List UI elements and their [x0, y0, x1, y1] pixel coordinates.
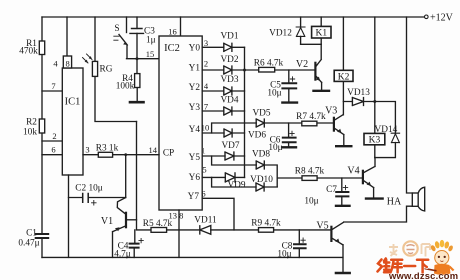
svg-text:8: 8 [179, 211, 183, 221]
svg-text:10μ: 10μ [277, 250, 291, 260]
svg-text:V3: V3 [325, 106, 337, 117]
svg-text:V4: V4 [347, 166, 359, 177]
svg-text:V1: V1 [101, 216, 113, 227]
svg-text:13: 13 [169, 211, 178, 221]
svg-text:R2: R2 [26, 118, 37, 128]
svg-text:10μ: 10μ [304, 197, 318, 207]
svg-text:Y1: Y1 [189, 64, 201, 74]
svg-text:8: 8 [65, 59, 69, 69]
svg-text:1μ: 1μ [146, 36, 156, 46]
svg-text:R7 4.7k: R7 4.7k [296, 112, 326, 122]
svg-text:4.7μ: 4.7μ [114, 250, 131, 260]
svg-text:VD12: VD12 [269, 29, 292, 39]
svg-text:Y7: Y7 [188, 192, 200, 202]
svg-text:R3 1k: R3 1k [96, 144, 119, 154]
svg-text:Y5: Y5 [189, 153, 201, 163]
svg-text:10: 10 [201, 123, 210, 133]
svg-text:100k: 100k [116, 82, 135, 92]
svg-text:R6 4.7k: R6 4.7k [254, 59, 284, 69]
svg-text:Y0: Y0 [189, 44, 201, 54]
svg-text:VD9: VD9 [227, 181, 245, 191]
svg-text:VD2: VD2 [220, 55, 238, 65]
svg-text:K2: K2 [338, 72, 350, 82]
svg-text:RG: RG [100, 65, 113, 75]
svg-text:+12V: +12V [430, 13, 454, 24]
svg-text:470k: 470k [19, 47, 38, 57]
svg-text:4: 4 [53, 59, 58, 69]
svg-text:C7: C7 [326, 185, 337, 195]
svg-text:C1: C1 [26, 229, 37, 239]
svg-text:R8 4.7k: R8 4.7k [295, 167, 325, 177]
svg-text:3: 3 [204, 38, 208, 48]
svg-text:VD14: VD14 [375, 125, 398, 135]
svg-text:7: 7 [204, 102, 208, 112]
svg-text:VD5: VD5 [252, 109, 270, 119]
svg-text:S: S [114, 24, 119, 34]
svg-text:0.47μ: 0.47μ [18, 239, 39, 249]
svg-text:4: 4 [204, 81, 209, 91]
svg-text:IC2: IC2 [164, 43, 180, 54]
svg-text:VD4: VD4 [220, 96, 238, 106]
svg-text:Y6: Y6 [189, 173, 201, 183]
svg-text:14: 14 [149, 145, 158, 155]
svg-text:10μ: 10μ [267, 89, 281, 99]
svg-text:VD1: VD1 [220, 32, 238, 42]
svg-text:VD7: VD7 [221, 141, 239, 151]
svg-text:VD6: VD6 [248, 131, 266, 141]
svg-text:K3: K3 [369, 135, 381, 145]
svg-text:K1: K1 [315, 29, 327, 39]
svg-text:VD13: VD13 [347, 88, 370, 98]
svg-text:6: 6 [201, 189, 205, 199]
svg-text:3: 3 [85, 145, 89, 155]
svg-text:Y3: Y3 [189, 103, 201, 113]
svg-text:1: 1 [201, 146, 205, 156]
svg-text:7: 7 [51, 81, 55, 91]
svg-text:Y4: Y4 [189, 125, 201, 135]
svg-text:16: 16 [168, 27, 177, 37]
svg-text:IC1: IC1 [65, 97, 81, 108]
svg-text:10k: 10k [23, 128, 37, 138]
svg-text:VD11: VD11 [194, 216, 217, 226]
svg-text:V5: V5 [316, 221, 328, 232]
svg-text:V2: V2 [296, 59, 308, 70]
svg-text:R5 4.7k: R5 4.7k [143, 219, 173, 229]
svg-text:5: 5 [202, 165, 206, 175]
svg-text:6: 6 [51, 145, 55, 155]
svg-text:www.dzsc.com: www.dzsc.com [388, 270, 458, 280]
svg-text:2: 2 [204, 59, 208, 69]
svg-text:C2 10μ: C2 10μ [75, 184, 102, 194]
svg-text:VD3: VD3 [220, 75, 238, 85]
svg-text:CP: CP [163, 149, 174, 159]
svg-text:VD10: VD10 [250, 175, 273, 185]
svg-text:2: 2 [52, 131, 56, 141]
svg-text:R9 4.7k: R9 4.7k [251, 219, 281, 229]
svg-text:HA: HA [387, 197, 402, 208]
svg-text:Y2: Y2 [189, 83, 201, 93]
svg-text:15: 15 [146, 49, 155, 59]
svg-text:10μ: 10μ [268, 143, 282, 153]
